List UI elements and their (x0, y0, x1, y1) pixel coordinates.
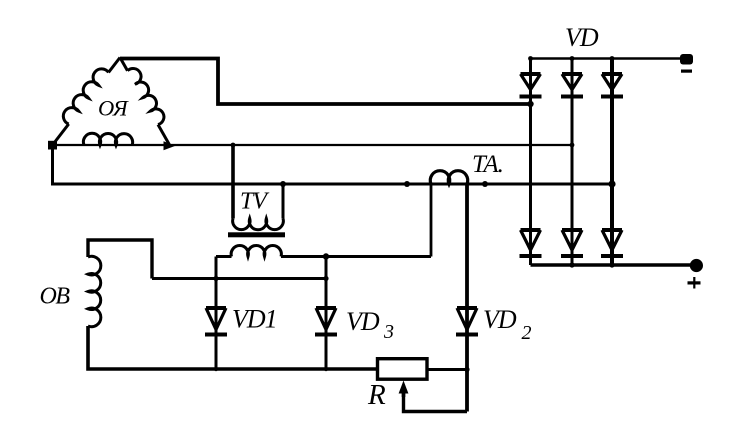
arrow on phase wire at delta bottom-right vertex (164, 141, 176, 150)
node: phase3 joins diode column 3 (608, 180, 615, 187)
diode VD top row col 3 (601, 74, 623, 97)
svg-text:R: R (367, 379, 386, 411)
node: VD3 bottom junction (324, 367, 328, 371)
wire: TA left leg down to secondary line (430, 184, 433, 257)
TV core (228, 232, 285, 237)
wire: wiper bottom link (404, 393, 468, 412)
wire: TA right leg / VD2 column (465, 184, 469, 412)
diode VD top row col 2 (561, 74, 583, 97)
diode VD2 (456, 308, 478, 335)
node: column2 bottom (569, 262, 574, 267)
svg-text:VD1: VD1 (232, 305, 277, 334)
node: phase2 joins diode column 2 (570, 143, 575, 148)
svg-text:ТА.: ТА. (472, 151, 503, 178)
diode VD1 (205, 308, 227, 335)
wire: phase2 bus y=145 (53, 144, 573, 146)
resistor R body (378, 359, 428, 380)
diode VD3 (315, 308, 337, 335)
TA secondary winding (430, 171, 467, 184)
wire: negative bus (top) (531, 57, 682, 60)
svg-text:VD: VD (565, 23, 599, 52)
minus sign (681, 70, 692, 73)
svg-text:ОЯ: ОЯ (98, 96, 129, 121)
svg-text:VD: VD (483, 305, 517, 334)
wire: OB bottom lead (88, 326, 378, 369)
node: column3 bottom (609, 262, 614, 267)
plus sign (688, 281, 701, 284)
diode VD bottom row col 2 (561, 230, 583, 256)
diode VD top row col 1 (520, 74, 542, 97)
node: VD3 tap on secondary right line (323, 253, 329, 259)
node: TV primary right tap on phase3 (280, 181, 286, 187)
node: column3 top (610, 56, 615, 61)
node: TA primary right terminal (482, 181, 488, 187)
node: VD2 column meets resistor right lead (464, 367, 469, 372)
node: TV primary left tap on phase2 (231, 143, 236, 148)
wire: TV primary left lead (231, 145, 235, 219)
wire: VD3 column (325, 257, 328, 370)
wire: OB top lead (88, 240, 152, 279)
wiper arrow (399, 381, 409, 394)
wire: TV secondary right line to TA (281, 255, 431, 258)
node: delta bottom-left terminal (square dot) (48, 141, 57, 150)
svg-text:ОВ: ОВ (40, 284, 71, 310)
wire: bridge column 1 (529, 59, 532, 266)
wire: TV primary right lead (282, 184, 285, 219)
wire: resistor right lead (427, 368, 467, 371)
wire: bridge column 2 (571, 59, 574, 266)
node: column1 top (528, 56, 533, 61)
node: VD1 bottom junction (214, 367, 218, 371)
TV primary winding (233, 219, 284, 230)
diode VD bottom row col 1 (520, 230, 542, 256)
wire: OB line y=278.5 (152, 277, 326, 280)
node: column2 top (570, 56, 575, 61)
OB winding (88, 256, 101, 326)
wire: positive bus (bottom) (531, 263, 697, 267)
node: OB line ends at VD3 column (323, 276, 328, 281)
svg-text:3: 3 (383, 321, 394, 343)
wire: apex to phase1 bus (steps down at x=218) (120, 59, 531, 105)
armature winding OYA (delta) (53, 58, 171, 146)
diode VD bottom row col 3 (601, 230, 623, 256)
svg-text:TV: TV (240, 189, 269, 215)
node: phase1 joins diode column 1 (527, 101, 533, 107)
wire: bridge column 3 (610, 59, 614, 266)
wire: phase3 bus y=184 (from delta BL corner) (53, 145, 613, 184)
negative output terminal (680, 54, 693, 65)
node: VD1 column crosses OB line (213, 276, 218, 281)
node: TA primary left terminal (404, 181, 410, 187)
wire: TV secondary left lead (216, 255, 232, 258)
wire: VD1 column (secondary left down to bottom bus) (215, 257, 218, 370)
TV secondary winding (231, 245, 281, 256)
svg-text:2: 2 (522, 322, 532, 344)
svg-text:VD: VD (346, 307, 380, 336)
positive output terminal (690, 259, 703, 272)
